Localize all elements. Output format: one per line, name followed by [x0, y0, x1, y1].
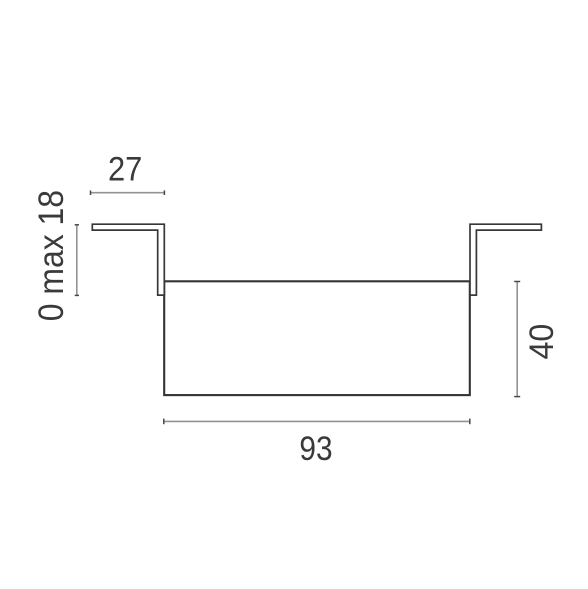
- svg-text:40: 40: [523, 324, 561, 360]
- svg-text:0 max 18: 0 max 18: [32, 190, 71, 321]
- svg-text:93: 93: [299, 430, 332, 468]
- svg-text:27: 27: [108, 150, 142, 188]
